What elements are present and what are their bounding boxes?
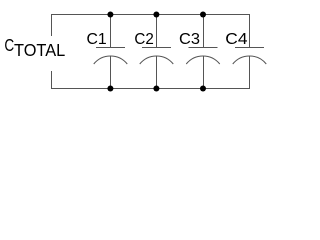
svg-text:C4: C4: [225, 31, 247, 48]
svg-text:C2: C2: [134, 31, 153, 48]
junction dot bottom of C1: [107, 86, 113, 92]
wire bottom rail: [51, 88, 250, 90]
capacitor C3 top plate: [189, 47, 218, 49]
junction dot top of C3: [200, 12, 206, 18]
svg-text:TOTAL: TOTAL: [14, 40, 65, 60]
capacitor C4 bottom lead: [249, 56, 251, 89]
capacitor C4 top plate: [235, 47, 264, 49]
junction dot top of C2: [153, 12, 159, 18]
wire left rail lower segment: [51, 71, 53, 89]
capacitor C4 top lead: [249, 15, 251, 48]
capacitor C2 bottom lead: [156, 56, 158, 89]
wire left rail upper segment: [51, 14, 53, 36]
junction dot top of C1: [107, 12, 113, 18]
capacitor C1 bottom lead: [110, 56, 112, 89]
capacitor C2 curved plate: [140, 56, 174, 64]
junction dot bottom of C2: [153, 86, 159, 92]
capacitor C1 curved plate: [94, 56, 128, 64]
capacitor C3 bottom lead: [203, 56, 205, 89]
capacitor C3 top lead: [203, 15, 205, 48]
svg-text:C1: C1: [87, 31, 107, 48]
junction dot bottom of C3: [200, 86, 206, 92]
capacitor C1 top plate: [96, 47, 125, 49]
capacitor C3 curved plate: [186, 56, 220, 64]
capacitor C2 top plate: [142, 47, 171, 49]
wire top rail: [51, 14, 250, 16]
capacitor C4 curved plate: [233, 56, 267, 64]
capacitor C2 top lead: [156, 15, 158, 48]
svg-text:C3: C3: [179, 31, 200, 48]
svg-text:C: C: [4, 35, 14, 55]
label C_TOTAL: [4, 35, 65, 60]
capacitor C1 top lead: [110, 15, 112, 48]
